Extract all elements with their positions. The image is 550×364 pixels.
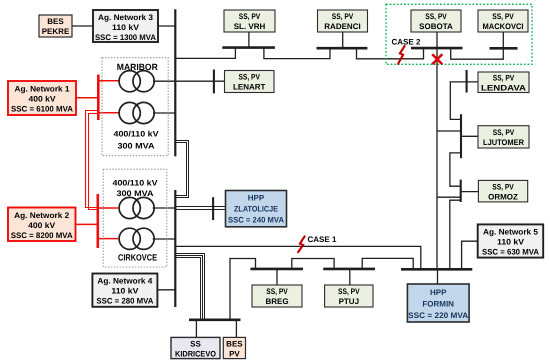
fault bolt CASE 2 <box>398 46 405 64</box>
wire line Kidricevo to BREG <box>230 259 256 320</box>
wire elbow LJUTOMER tick to ORMOZ tick <box>450 153 461 186</box>
svg-text:BES: BES <box>47 17 64 26</box>
svg-text:LENART: LENART <box>233 83 266 92</box>
svg-text:SS, PV: SS, PV <box>238 73 260 82</box>
transformer T3 CIRKOVCE <box>119 197 140 218</box>
box SS PV SOBOTA <box>411 10 461 32</box>
tick ORMOZ bus <box>460 180 462 202</box>
busbar SOBOTA <box>411 47 463 50</box>
box SS PV MACKOVCI <box>478 10 528 32</box>
bus Maribor 110kV (main left vertical, upper section) <box>174 9 176 156</box>
svg-text:HPP: HPP <box>430 288 447 297</box>
wire line Maribor bus to SL. VRH busbar <box>175 48 235 58</box>
wire Cirkovce-Kidricevo circuit 2 <box>175 256 202 320</box>
svg-text:MARIBOR: MARIBOR <box>117 62 158 72</box>
svg-text:MACKOVCI: MACKOVCI <box>483 22 524 31</box>
svg-text:LJUTOMER: LJUTOMER <box>483 138 524 147</box>
box Ag. Network 4 <box>92 274 157 307</box>
svg-text:Ag. Network 3: Ag. Network 3 <box>98 13 154 22</box>
box SS PV PTUJ <box>325 285 373 307</box>
wire transformer T3 output to Cirkovce bus <box>153 207 177 209</box>
svg-text:110 kV: 110 kV <box>111 287 139 296</box>
svg-text:PV: PV <box>229 349 240 358</box>
svg-text:SSC = 240 MVA: SSC = 240 MVA <box>228 216 284 225</box>
svg-text:SS, PV: SS, PV <box>493 74 515 83</box>
busbar PTUJ <box>323 268 375 271</box>
svg-text:SS, PV: SS, PV <box>493 128 515 137</box>
wire Ag. Network 1 to red bus <box>76 97 98 99</box>
wire double line Cirkovce bus to HPP ZLATOLICJE lower <box>175 209 225 211</box>
svg-text:400/110 kV: 400/110 kV <box>114 130 160 139</box>
transformer T1 MARIBOR <box>119 71 140 92</box>
svg-text:SL. VRH: SL. VRH <box>234 22 266 31</box>
svg-text:SS, PV: SS, PV <box>492 12 514 21</box>
box Ag. Network 3 <box>93 10 158 42</box>
wire double line Cirkovce bus to HPP ZLATOLICJE upper <box>175 206 225 208</box>
svg-text:SSC = 280 MVA: SSC = 280 MVA <box>96 297 153 306</box>
wire double line Maribor-Cirkovce outer <box>175 141 188 198</box>
svg-text:CASE 2: CASE 2 <box>392 38 421 47</box>
transformer T2 MARIBOR <box>119 102 140 123</box>
svg-text:PTUJ: PTUJ <box>339 297 359 306</box>
wire Sobota vertical to ORMOZ tick <box>437 196 461 198</box>
wire line SOBOTA to MACKOVCI <box>451 32 504 59</box>
svg-text:110 kV: 110 kV <box>112 23 140 32</box>
svg-text:BES: BES <box>226 339 243 348</box>
tick LENDAVA <box>466 70 468 93</box>
wire Ag. Network 5 elbow to FORMIN busbar <box>462 241 478 269</box>
dashed block MARIBOR 400/110 <box>102 58 168 156</box>
wire Ag. Network 4 to Cirkovce bus <box>158 289 176 291</box>
svg-text:300 MVA: 300 MVA <box>117 189 154 198</box>
box SS PV LENDAVA <box>478 72 529 93</box>
wire red 400kV line Maribor-Cirkovce circuit 1 <box>86 111 99 208</box>
svg-text:PEKRE: PEKRE <box>42 27 70 36</box>
bus Cirkovce 110kV (main left vertical, lower section) <box>174 190 176 307</box>
wire Ag. Network 3 to Maribor bus <box>158 25 175 27</box>
wire SOBOTA feeder vertical (continues to FORMIN busbar) <box>436 32 438 269</box>
busbar FORMIN <box>401 268 472 271</box>
tick LJUTOMER bus <box>460 114 462 158</box>
wire double line Maribor-Cirkovce inner <box>175 143 186 196</box>
svg-text:SS, PV: SS, PV <box>492 183 514 192</box>
wire Cirkovce-Kidricevo circuit 1 <box>175 254 204 320</box>
box HPP ZLATOLICJE <box>226 191 287 227</box>
wire red bus to transformer T1 <box>98 80 119 82</box>
wire Ag. Network 2 to red bus <box>76 223 98 225</box>
svg-text:Ag. Network 2: Ag. Network 2 <box>14 211 70 220</box>
wire stub SS KIDRICEVO box <box>195 320 197 338</box>
wire transformer T2 output to Maribor bus <box>153 112 175 114</box>
wire red bus to transformer T3 <box>98 207 118 209</box>
svg-text:SS, PV: SS, PV <box>266 287 288 296</box>
box SS PV BREG <box>252 285 302 307</box>
wire red bus to transformer T2 <box>98 112 119 114</box>
svg-text:SOBOTA: SOBOTA <box>419 22 453 31</box>
wire stub HPP FORMIN box <box>437 269 439 284</box>
box BES PEKRE <box>39 15 72 37</box>
svg-text:300 MVA: 300 MVA <box>118 142 155 151</box>
box Ag. Network 5 <box>478 224 544 257</box>
svg-text:SS, PV: SS, PV <box>338 287 360 296</box>
svg-text:KIDRICEVO: KIDRICEVO <box>175 349 216 358</box>
box SS PV LJUTOMER <box>478 126 529 148</box>
box SS PV RADENCI <box>318 10 368 32</box>
svg-text:SSC = 6100 MVA: SSC = 6100 MVA <box>11 105 73 114</box>
dashed box CASE 2 (green) <box>386 4 532 64</box>
svg-text:SS, PV: SS, PV <box>332 12 354 21</box>
busbar MACKOVCI <box>490 47 518 50</box>
wire stub BREG box <box>276 269 278 285</box>
svg-text:SSC = 8200 MVA: SSC = 8200 MVA <box>11 231 73 240</box>
svg-text:Ag. Network 5: Ag. Network 5 <box>483 228 539 237</box>
svg-text:Ag. Network 1: Ag. Network 1 <box>15 85 71 94</box>
svg-text:RADENCI: RADENCI <box>324 22 360 31</box>
box Ag. Network 2 (red) <box>8 208 76 242</box>
wire red 400kV line Maribor-Cirkovce circuit 2 <box>89 114 99 210</box>
wire line SL. VRH to RADENCI <box>264 48 330 59</box>
fault bolt CASE 1 <box>298 236 305 252</box>
svg-text:ZLATOLICJE: ZLATOLICJE <box>234 204 279 213</box>
wire red bus to transformer T4 <box>98 238 118 240</box>
busbar KIDRICEVO <box>189 318 241 321</box>
svg-text:SSC = 1300 MVA: SSC = 1300 MVA <box>95 33 156 42</box>
busbar BREG <box>250 268 303 271</box>
wire stub RADENCI box <box>342 32 344 48</box>
svg-text:400/110 kV: 400/110 kV <box>113 179 159 188</box>
busbar SL. VRH <box>222 46 275 49</box>
wire stub SL. VRH box <box>248 32 250 48</box>
svg-text:ORMOZ: ORMOZ <box>488 193 518 202</box>
wire ORMOZ box lead <box>461 191 479 193</box>
svg-text:SSC = 220 MVA: SSC = 220 MVA <box>408 311 468 320</box>
box Ag. Network 1 (red) <box>8 81 76 115</box>
box BES PV <box>223 337 245 358</box>
wire line BREG to PTUJ <box>292 259 334 269</box>
svg-text:400 kV: 400 kV <box>29 95 57 104</box>
wire Sobota vertical to LJUTOMER tick <box>437 130 461 132</box>
tick ZLATOLICJE bus <box>212 197 214 220</box>
tick LENART bus <box>213 70 215 94</box>
wire elbow to LENDAVA <box>450 82 478 120</box>
wire LJUTOMER box lead <box>461 135 478 137</box>
fault X mark CASE 2 <box>432 54 442 64</box>
dashed block CIRKOVCE 400/110 <box>103 169 167 267</box>
wire LENART line with transformer T1 output <box>153 80 225 82</box>
box SS PV SL. VRH <box>224 10 275 32</box>
wire elbow ORMOZ to FORMIN busbar <box>450 200 461 269</box>
box SS PV ORMOZ <box>478 180 527 202</box>
wire Cirkovce-Kidricevo circuit 3 <box>175 258 200 320</box>
box SS PV LENART <box>225 71 275 93</box>
bus 400kV Cirkovce (red) <box>97 194 100 248</box>
busbar RADENCI <box>317 47 368 50</box>
svg-text:LENDAVA: LENDAVA <box>481 84 526 93</box>
svg-text:Ag. Network 4: Ag. Network 4 <box>97 277 153 286</box>
svg-text:110 kV: 110 kV <box>497 238 525 247</box>
svg-text:SS, PV: SS, PV <box>239 12 261 21</box>
wire line RADENCI to SOBOTA (CASE 2 fault line) <box>357 48 424 59</box>
svg-text:HPP: HPP <box>248 194 265 203</box>
transformer T4 CIRKOVCE <box>119 228 140 249</box>
svg-text:CASE 1: CASE 1 <box>308 235 337 244</box>
wire BES PEKRE to Ag. Network 3 <box>72 25 93 27</box>
wire stub PTUJ box <box>349 269 351 285</box>
svg-text:SSC = 630 MVA: SSC = 630 MVA <box>482 248 539 257</box>
svg-text:FORMIN: FORMIN <box>422 299 454 308</box>
wire line PTUJ to FORMIN <box>362 258 413 268</box>
svg-text:SS, PV: SS, PV <box>425 12 447 21</box>
svg-text:SS: SS <box>190 339 201 348</box>
box HPP FORMIN <box>407 284 469 322</box>
svg-text:CIRKOVCE: CIRKOVCE <box>118 253 157 263</box>
wire stub BES PV box <box>235 320 237 338</box>
box SS KIDRICEVO <box>171 337 220 358</box>
svg-text:400 kV: 400 kV <box>28 221 56 230</box>
svg-text:BREG: BREG <box>265 297 288 306</box>
wire line Cirkovce to FORMIN (CASE 1 fault line) <box>175 246 420 269</box>
bus 400kV Maribor (red) <box>97 75 100 120</box>
wire transformer T4 output to Cirkovce bus <box>153 238 176 240</box>
